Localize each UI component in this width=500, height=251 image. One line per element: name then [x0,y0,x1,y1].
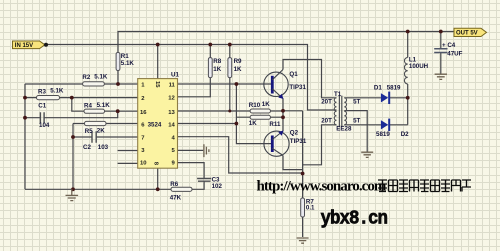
node pin15/rail [156,43,160,47]
wire transformer bottom terminal [303,125,337,165]
wire ground bus [25,181,204,189]
svg-text:OUT 5V: OUT 5V [456,31,478,37]
wire pin2 row [25,97,138,99]
wire R7 leads [302,174,304,238]
wire secondary center tap to ground [344,111,367,152]
wire R9 top [229,45,231,58]
svg-text:11: 11 [169,83,176,89]
wire D2 to output node [390,124,408,126]
resistor R8 [208,58,212,78]
node left rail R3 [23,96,27,100]
svg-text:5819: 5819 [387,85,401,92]
svg-text:R3: R3 [38,88,46,95]
wire R10 right lead [271,110,284,112]
power port OUT 5V [454,28,487,36]
wire pin2 node down to R4 [72,98,84,112]
watermark chinese company name [378,180,471,192]
svg-text:http://www.sonaro.com: http://www.sonaro.com [257,179,387,195]
svg-text:5.1K: 5.1K [94,74,108,81]
svg-text:2K: 2K [97,128,105,135]
wire secondary bottom to D2 [344,124,381,126]
svg-text:C2: C2 [83,144,91,151]
resistor R11 [250,115,270,119]
svg-text:102: 102 [212,183,223,190]
node R8/rail [208,43,212,47]
wire pin1 row right [104,83,137,85]
svg-text:R2: R2 [82,74,90,81]
wire L1 bottom to diode node [407,84,409,125]
wire emitter rail down to R7 node [302,111,304,174]
wire emitter node right [283,110,303,112]
node R1/pin1 [116,82,120,86]
svg-text:D1: D1 [374,85,382,92]
wire pin8 drop to bus [157,168,159,189]
svg-text:R5: R5 [85,128,93,135]
power port IN 15V [13,41,49,49]
svg-text:Q2: Q2 [290,130,299,137]
node D1 L1 [406,96,410,100]
node base link top [235,82,239,86]
ground R7 [297,238,309,243]
resistor R5 [85,121,107,125]
svg-text:100UH: 100UH [409,63,429,70]
resistor R6 [171,187,192,191]
svg-text:+ C4: + C4 [442,42,456,49]
node left rail C1 [23,116,27,120]
svg-text:104: 104 [39,122,50,129]
transformer T1 primary winding [334,98,336,125]
wire base-link vertical to Q2 base [236,84,271,144]
wire L1 top [407,32,409,58]
chip pin numbers [140,81,176,167]
wire pin13 row to R10 [178,110,251,112]
capacitor C2 [92,131,96,143]
wire C4 top lead [440,32,442,49]
resistor bodies horizontal [37,82,271,192]
svg-text:5.1K: 5.1K [50,88,64,95]
svg-text:U1: U1 [171,72,179,79]
wire pin1 row left [25,83,83,85]
chip U1 SG3524 body [138,79,178,169]
wire Q2 bottom lead [283,156,303,170]
port labels [15,31,478,49]
svg-text:Q1: Q1 [289,71,298,78]
svg-text:TIP31: TIP31 [290,138,307,145]
node pin8 bus [156,187,160,191]
svg-text:20T: 20T [321,98,332,105]
node bus ground [71,187,75,191]
resistor R3 [37,96,60,100]
svg-text:5T: 5T [353,117,360,124]
node C4 rail [439,30,443,34]
svg-text:R10: R10 [249,102,261,109]
wire left mid vertical to bus [72,124,74,190]
svg-text:R6: R6 [170,181,178,188]
svg-text:3524: 3524 [148,121,162,128]
wire pin14 row [178,123,237,125]
svg-text:10: 10 [140,161,147,167]
svg-text:15: 15 [154,81,160,88]
wire R1 bottom to pin1 node [117,71,119,85]
svg-text:103: 103 [98,144,109,151]
node R7 top [301,172,305,176]
ground secondary [361,152,373,157]
resistor R1 [116,53,120,71]
svg-text:16: 16 [140,110,147,116]
wire pin11 row to Q1 base [178,83,272,85]
svg-text:R8: R8 [213,58,221,65]
ground C4 [435,74,447,79]
svg-text:ybx8.cn: ybx8.cn [321,208,387,230]
svg-text:5819: 5819 [376,131,390,138]
svg-text:5.1K: 5.1K [97,102,111,109]
svg-text:0.1: 0.1 [306,205,315,212]
wire D1 to output node [390,97,408,99]
wire pin3 stub [118,150,138,152]
wire R5 pin6 row [73,123,138,125]
svg-text:13: 13 [168,110,175,116]
svg-text:T1: T1 [334,91,342,98]
wire pin15 drop [157,45,159,79]
wire feedback rail OUT5V to R1 [118,32,454,53]
transistor Q1 [264,70,288,100]
svg-text:R9: R9 [234,58,242,65]
capacitor C3 [197,179,211,182]
resistor R7 [301,198,305,217]
resistor R9 [228,58,232,78]
diode D1 [381,92,390,104]
resistor R2 [83,82,105,86]
svg-text:5.1K: 5.1K [121,60,135,67]
svg-text:20T: 20T [321,117,332,124]
wire pin4 to R7 node [178,137,303,173]
wire R4 to pin16 [105,110,138,112]
inductor L1 [404,58,407,84]
svg-text:D2: D2 [401,131,409,138]
node L1 rail [406,30,410,34]
wire R8 top [209,45,211,58]
ground bus left [66,189,79,200]
node C1/pin16 [116,109,120,113]
wire R9 bottom [229,78,231,111]
capacitor C1 [40,112,44,123]
svg-text:14: 14 [168,122,175,128]
wire pin5 stub [178,149,204,151]
wire C4 bottom lead [440,53,442,74]
wire Q1 emitter to Q2 emitter [282,99,284,132]
capacitor C4 polarized [434,49,447,53]
ground pin5 sideways [204,144,209,157]
wire C1 row [25,111,118,118]
transistor Q2 [264,131,289,157]
svg-text:TIP31: TIP31 [289,84,306,91]
wire Q1 collector to transformer top [283,60,337,98]
transformer T1 secondary winding [344,98,346,125]
transformer T1 core [339,96,341,128]
wire C3 top lead to pin9 [178,163,205,179]
svg-text:R11: R11 [269,121,281,128]
node R3/pin2 [70,96,74,100]
svg-text:IN 15V: IN 15V [15,43,33,49]
svg-text:5T: 5T [353,98,360,105]
wire C2 pin7 row [73,136,138,138]
wire left rail [24,84,26,189]
svg-text:47K: 47K [170,194,182,201]
node C2 row [71,135,75,139]
svg-text:R4: R4 [84,102,92,109]
svg-text:C1: C1 [38,102,46,109]
svg-text:47UF: 47UF [447,50,462,57]
resistor R4 [84,109,105,113]
resistor R10 [250,109,270,113]
wire IN rail to transformer center tap [46,45,337,111]
node Q1 emitter R10 [281,109,285,113]
svg-text:R1: R1 [121,53,129,60]
svg-text:1K: 1K [213,66,221,73]
node base link pin14 [235,122,239,126]
node R9 pin13 [228,110,231,113]
wire R11 leads [236,116,283,118]
wire pin10 stub [118,162,138,164]
wire secondary top to D1 [344,97,381,99]
svg-text:1K: 1K [262,101,270,108]
node R9/rail [228,43,232,47]
resistor bodies vertical [116,53,304,218]
diode D2 [381,119,390,131]
svg-text:1K: 1K [234,66,242,73]
node R11 emitter [281,115,285,119]
wire pin12 row to R8 [178,78,211,97]
svg-text:EE28: EE28 [336,125,352,132]
svg-text:12: 12 [168,96,175,102]
svg-text:1K: 1K [249,120,257,127]
